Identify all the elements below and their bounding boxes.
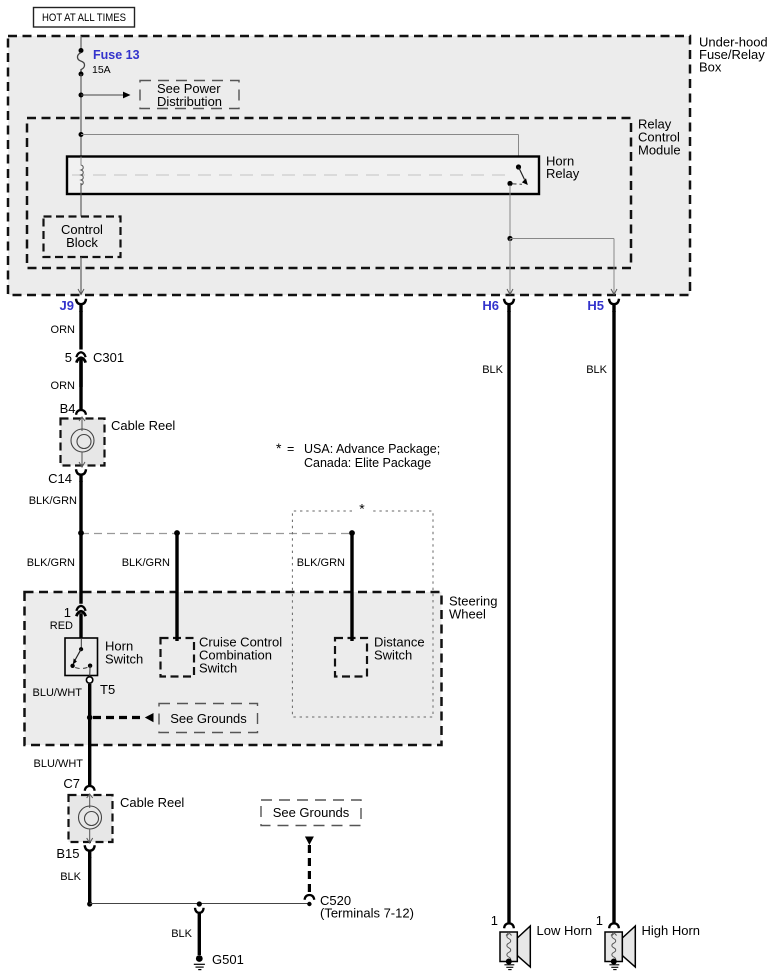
svg-text:Canada: Elite Package: Canada: Elite Package — [304, 456, 431, 470]
relay control module box — [27, 117, 681, 269]
wire BLK/GRN main down to connector 1 — [27, 533, 81, 604]
wire BLK to bottom junction — [60, 857, 89, 904]
wire BLK H6 to low horn — [482, 311, 509, 924]
svg-text:*: * — [359, 501, 365, 517]
under-hood fuse/relay box — [8, 35, 768, 296]
svg-text:BLU/WHT: BLU/WHT — [33, 687, 83, 699]
horn relay box — [67, 154, 580, 195]
wire control block to J9 exit arrow — [78, 257, 84, 295]
fuse 13 — [77, 48, 139, 77]
svg-text:B15: B15 — [56, 846, 79, 861]
svg-text:ORN: ORN — [51, 324, 76, 336]
wire BLK/GRN distance branch — [297, 533, 352, 641]
svg-text:Switch: Switch — [199, 661, 237, 676]
connector H6 — [482, 298, 514, 313]
see grounds box 2 — [261, 800, 361, 826]
high horn — [596, 913, 700, 970]
wire coil to control block — [80, 183, 82, 217]
steering wheel box — [25, 592, 498, 745]
svg-text:Fuse 13: Fuse 13 — [93, 48, 140, 62]
node ground branch + dashed arrow to see grounds — [87, 713, 154, 722]
svg-text:RED: RED — [50, 620, 73, 632]
svg-text:Distribution: Distribution — [157, 94, 222, 109]
svg-text:BLK/GRN: BLK/GRN — [27, 557, 75, 569]
svg-text:B4: B4 — [60, 401, 76, 416]
connector T5 — [86, 677, 115, 697]
svg-text:G501: G501 — [212, 952, 244, 967]
svg-text:Relay: Relay — [546, 166, 580, 181]
bottom junction horizontal wire — [87, 901, 309, 906]
svg-text:BLK: BLK — [586, 364, 607, 376]
distance switch box — [335, 635, 425, 677]
cruise control combination switch box — [161, 635, 283, 677]
svg-text:C301: C301 — [93, 350, 124, 365]
svg-text:Cable Reel: Cable Reel — [111, 418, 175, 433]
wire to relay switch top contact — [81, 135, 519, 167]
wire split to H6 and H5 exits — [507, 239, 617, 295]
wire arrow to see power distribution — [81, 92, 131, 99]
svg-text:BLK/GRN: BLK/GRN — [122, 557, 170, 569]
svg-text:1: 1 — [64, 605, 71, 620]
wire BLK/GRN to junction — [29, 481, 81, 533]
svg-text:1: 1 — [491, 913, 498, 928]
svg-text:High Horn: High Horn — [642, 923, 701, 938]
node: relay feed branch — [79, 132, 84, 137]
wire from top border to fuse — [80, 36, 82, 50]
junction dashed branch line — [78, 530, 355, 536]
horn switch — [65, 638, 143, 677]
wire relay output down — [509, 185, 511, 239]
connector C301 — [65, 350, 124, 387]
svg-text:BLU/WHT: BLU/WHT — [34, 758, 84, 770]
svg-text:USA: Advance Package;: USA: Advance Package; — [304, 442, 440, 456]
see grounds box 1 — [159, 704, 258, 733]
wire BLU/WHT below T5 — [33, 684, 90, 745]
svg-text:Block: Block — [66, 235, 98, 250]
svg-text:BLK: BLK — [60, 871, 81, 883]
svg-text:Cable Reel: Cable Reel — [120, 795, 184, 810]
relay interior dashed line — [72, 174, 505, 176]
svg-text:H5: H5 — [587, 298, 604, 313]
svg-text:Switch: Switch — [374, 648, 412, 663]
wire below fuse — [80, 74, 82, 156]
svg-text:*: * — [276, 440, 282, 456]
svg-text:5: 5 — [65, 350, 72, 365]
see power distribution box — [140, 81, 239, 110]
svg-text:Wheel: Wheel — [449, 607, 486, 622]
HOT AT ALL TIMES box — [34, 8, 135, 28]
svg-text:Low Horn: Low Horn — [537, 923, 593, 938]
svg-text:Box: Box — [699, 60, 722, 75]
svg-text:=: = — [287, 442, 294, 456]
svg-text:T5: T5 — [100, 682, 115, 697]
connector H5 — [587, 298, 619, 313]
svg-text:See Grounds: See Grounds — [170, 711, 247, 726]
connector B4 — [60, 401, 86, 416]
connector C7 — [63, 776, 94, 791]
cable reel 1 — [61, 417, 176, 467]
svg-text:BLK/GRN: BLK/GRN — [297, 557, 345, 569]
cable reel 2 — [69, 794, 185, 843]
svg-text:(Terminals 7-12): (Terminals 7-12) — [320, 906, 414, 921]
node: see power branch — [79, 93, 84, 98]
C520 dashed ground wire — [305, 837, 414, 921]
control block box — [44, 217, 121, 258]
svg-text:ORN: ORN — [51, 380, 76, 392]
connector 1 with RED — [50, 605, 86, 638]
svg-text:HOT AT ALL TIMES: HOT AT ALL TIMES — [42, 12, 126, 24]
relay switch contacts — [507, 164, 527, 186]
svg-text:See Grounds: See Grounds — [273, 805, 350, 820]
svg-text:1: 1 — [596, 913, 603, 928]
G501 ground branch — [171, 901, 244, 969]
connector J9 — [60, 298, 86, 313]
wire BLU/WHT to C7 — [34, 745, 90, 787]
svg-text:BLK: BLK — [171, 928, 192, 940]
svg-text:BLK: BLK — [482, 364, 503, 376]
relay coil — [81, 165, 83, 185]
wire ORN J9 to C301 — [51, 311, 81, 350]
svg-text:BLK/GRN: BLK/GRN — [29, 495, 77, 507]
svg-text:C14: C14 — [48, 471, 72, 486]
svg-text:J9: J9 — [60, 298, 74, 313]
svg-text:Module: Module — [638, 143, 681, 158]
asterisk dotted box — [292, 501, 433, 718]
svg-text:C7: C7 — [63, 776, 80, 791]
low horn — [491, 913, 592, 970]
wire BLK/GRN cruise branch — [122, 533, 177, 641]
svg-text:H6: H6 — [482, 298, 499, 313]
connector C14 — [48, 469, 86, 486]
connector B15 — [56, 845, 94, 861]
svg-text:15A: 15A — [92, 64, 111, 76]
svg-text:Switch: Switch — [105, 652, 143, 667]
wire ORN 2 — [51, 359, 81, 410]
node relay output split — [507, 236, 512, 241]
wire BLK H5 to high horn — [586, 311, 614, 924]
note USA/Canada package — [276, 440, 440, 470]
